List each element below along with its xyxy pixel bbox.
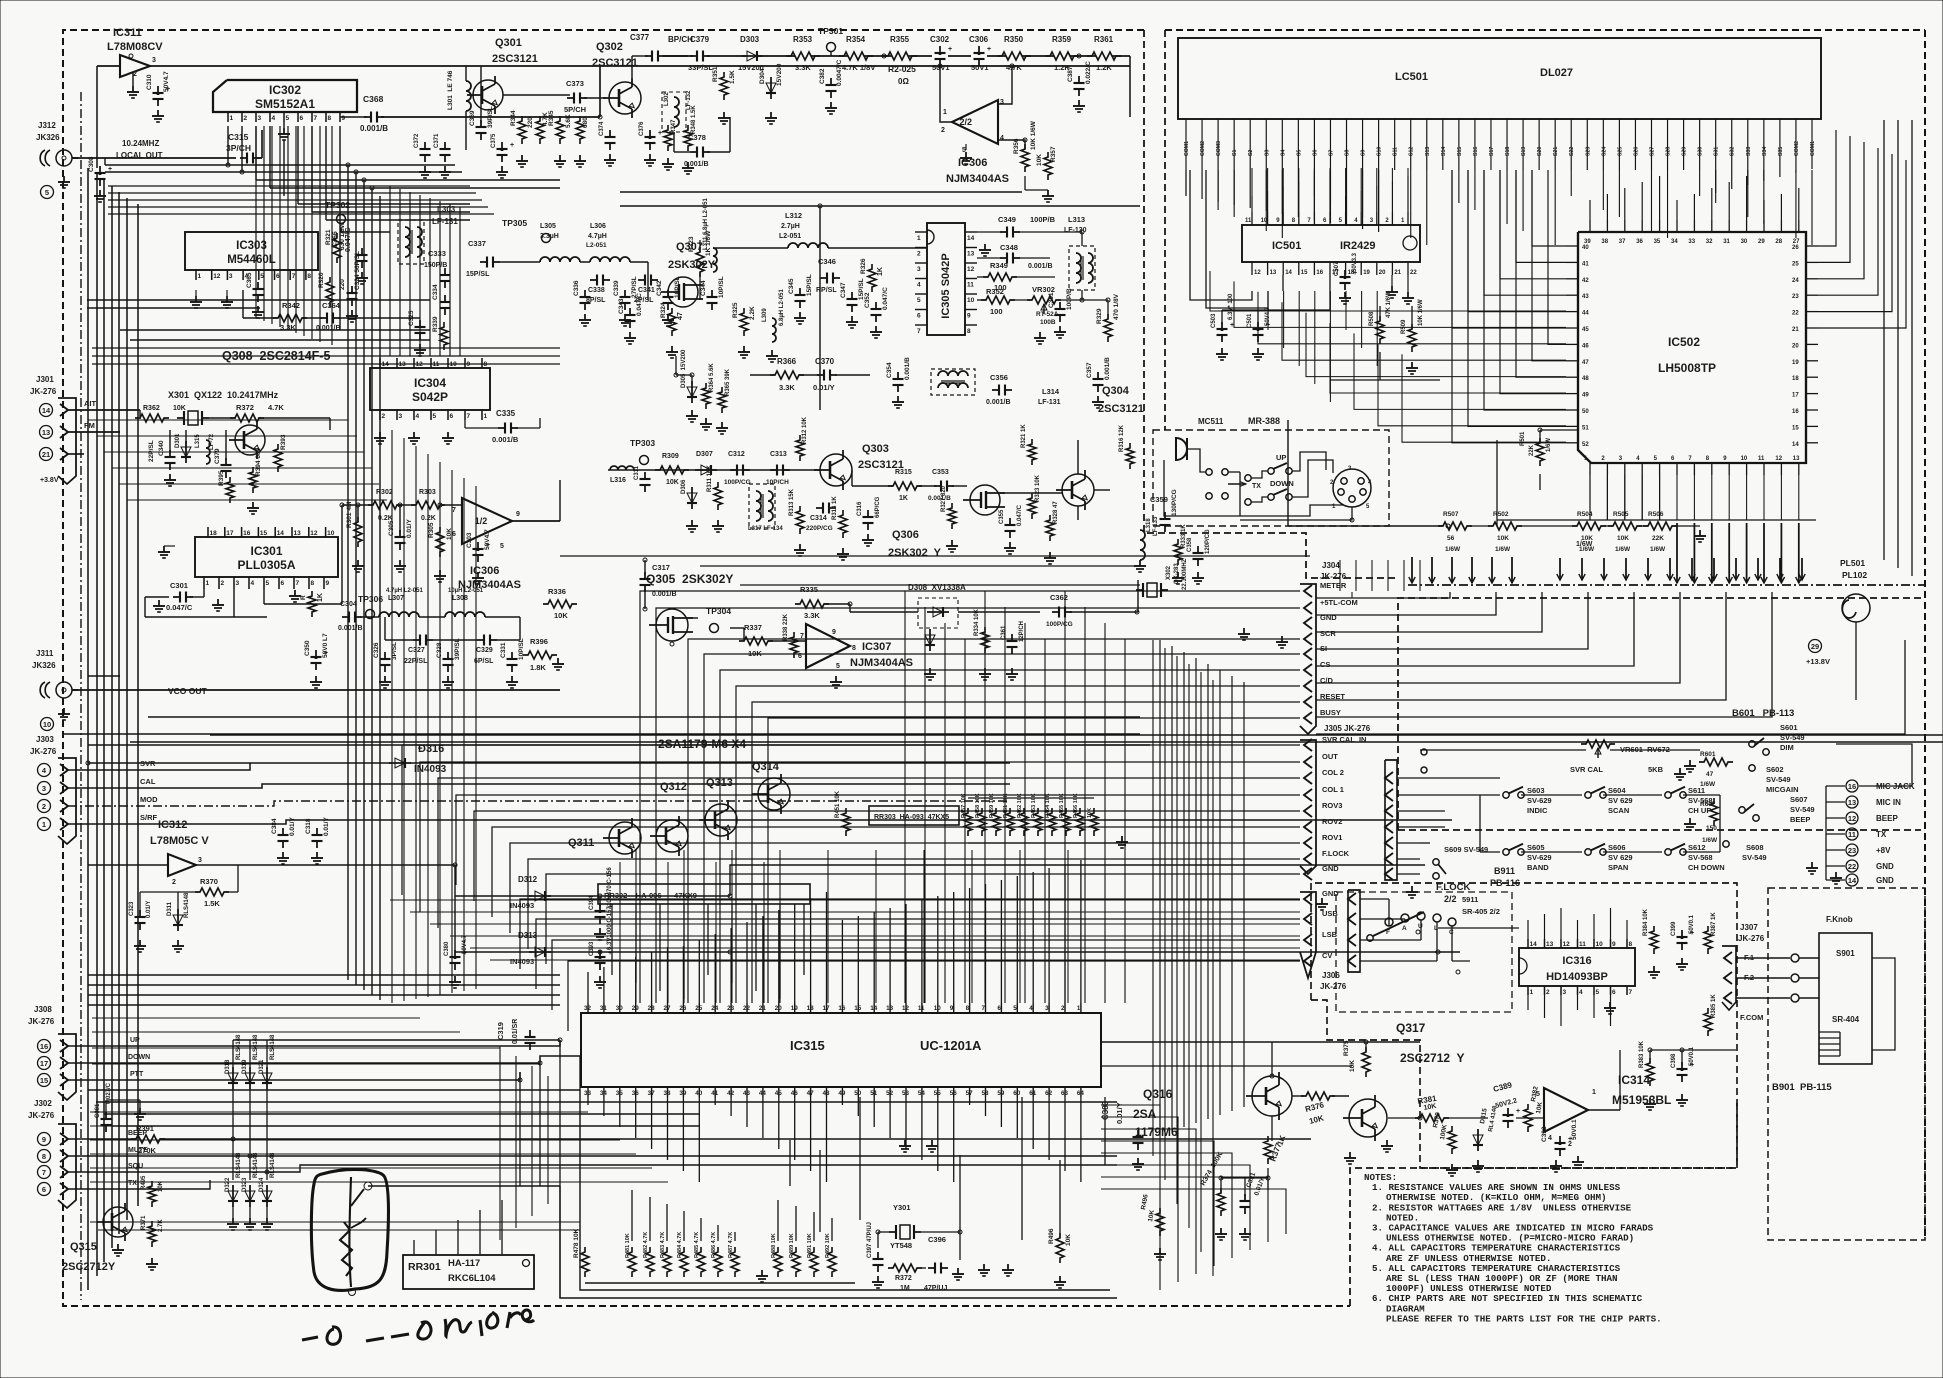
wire: [599, 66, 601, 117]
resistor R305 10K: [436, 527, 444, 557]
svg-text:8: 8: [1706, 456, 1710, 462]
svg-text:29: 29: [1811, 642, 1819, 651]
svg-text:22: 22: [1848, 862, 1856, 871]
svg-text:RLS4148: RLS4148: [236, 1034, 242, 1060]
svg-text:22K: 22K: [1529, 444, 1535, 456]
svg-text:3P/CH: 3P/CH: [226, 143, 251, 153]
svg-text:15: 15: [854, 1005, 862, 1012]
svg-text:RLS4148: RLS4148: [270, 1034, 276, 1060]
capacitor C362 100P/CG: [1052, 611, 1059, 613]
resistor R391 270K: [131, 1135, 165, 1143]
wire: [454, 865, 456, 952]
resistor R364 5.6K: [702, 383, 710, 409]
inductor L316 6.8uH: [610, 466, 634, 470]
svg-text:8: 8: [328, 115, 332, 122]
svg-text:51: 51: [870, 1090, 878, 1097]
svg-text:+: +: [658, 130, 662, 137]
wire: [704, 654, 1300, 1003]
svg-text:NJM3404AS: NJM3404AS: [946, 173, 1009, 185]
svg-text:3: 3: [1370, 218, 1374, 224]
svg-text:R305: R305: [428, 522, 435, 538]
ground: [139, 1108, 141, 1114]
svg-text:48: 48: [823, 1090, 831, 1097]
ground: [158, 600, 160, 606]
wire: [977, 231, 1002, 233]
wire MUTE: [68, 1155, 1117, 1157]
svg-text:41: 41: [1582, 261, 1589, 267]
svg-text:5P/CH: 5P/CH: [564, 105, 586, 114]
resistor R315 1K: [888, 482, 922, 490]
svg-text:10K: 10K: [1617, 535, 1629, 542]
svg-text:10K: 10K: [1535, 1101, 1544, 1114]
svg-text:12: 12: [1254, 270, 1261, 276]
svg-text:10P/SL: 10P/SL: [518, 638, 525, 660]
svg-text:C336: C336: [573, 280, 580, 296]
wire: [568, 961, 1300, 1031]
resistor R323b 10K: [1028, 493, 1036, 519]
svg-text:37: 37: [1619, 239, 1626, 245]
svg-text:50V2.2: 50V2.2: [1495, 1097, 1518, 1110]
svg-text:25: 25: [1792, 261, 1799, 267]
resistor R501 22K 1/6W: [1536, 438, 1544, 466]
svg-text:7: 7: [467, 413, 471, 420]
diode D304 15V200: [770, 77, 772, 99]
svg-text:1: 1: [1530, 989, 1534, 996]
svg-text:1: 1: [1592, 1089, 1596, 1096]
svg-text:R357: R357: [1050, 146, 1057, 162]
svg-text:S604: S604: [1608, 786, 1626, 795]
svg-text:1/6W: 1/6W: [1495, 546, 1511, 553]
wire: [90, 1139, 620, 1141]
svg-text:9: 9: [326, 580, 330, 587]
wire: [647, 262, 649, 300]
svg-text:10: 10: [327, 530, 335, 537]
svg-text:100B: 100B: [1040, 319, 1056, 326]
wire: [90, 1167, 652, 1169]
svg-text:SV-549: SV-549: [1742, 853, 1767, 862]
svg-text:14: 14: [870, 1005, 878, 1012]
switch S605 SV-629 BAND: [1503, 849, 1509, 855]
ground: [132, 72, 134, 86]
wire RR302 pins down: [611, 904, 613, 975]
svg-text:C354: C354: [886, 362, 893, 378]
capacitor C316 66P/CG: [867, 510, 869, 517]
resistor R-1K: [308, 591, 316, 617]
wire: [474, 811, 1300, 901]
wire: [968, 842, 1122, 844]
svg-text:3: 3: [1619, 456, 1623, 462]
wire: [68, 409, 140, 411]
wire mid-right verticals: [904, 591, 906, 1003]
wire: [341, 505, 343, 604]
svg-text:S26: S26: [1633, 147, 1639, 156]
svg-text:13: 13: [42, 428, 50, 437]
capacitor C338 8P/SL: [590, 279, 597, 281]
svg-text:34: 34: [1671, 239, 1678, 245]
ground: [1411, 362, 1413, 368]
wire: [340, 228, 342, 232]
wire SVR: [68, 763, 250, 770]
ground: [965, 144, 967, 150]
svg-text:C351: C351: [1048, 292, 1055, 308]
wire: [88, 864, 168, 866]
svg-text:R509: R509: [1401, 319, 1407, 334]
node 9: [38, 1133, 51, 1146]
wire IC502 bottom drops: [1589, 475, 1591, 520]
svg-text:DIM: DIM: [1780, 743, 1794, 752]
svg-text:0.001/B: 0.001/B: [986, 399, 1011, 406]
svg-text:7: 7: [982, 1005, 986, 1012]
svg-text:5: 5: [1366, 504, 1370, 510]
svg-text:25: 25: [695, 1005, 703, 1012]
svg-text:31: 31: [600, 1005, 608, 1012]
node TX: [1846, 828, 1858, 840]
svg-text:2SC2712Y: 2SC2712Y: [62, 1261, 116, 1273]
svg-text:C370: C370: [815, 357, 835, 366]
resistor R313 15K: [796, 506, 804, 534]
svg-text:IN4093: IN4093: [414, 764, 447, 775]
svg-text:C347: C347: [840, 282, 847, 298]
capacitor C311 0.033/SPP: [644, 472, 646, 479]
svg-text:5: 5: [1536, 1091, 1540, 1098]
resistor R508 47K 1/6W: [1376, 316, 1384, 344]
svg-text:9: 9: [950, 1005, 954, 1012]
resistor R342 3.3K: [273, 314, 307, 322]
resistor R495 10K: [148, 1181, 156, 1207]
wire: [63, 733, 1140, 735]
capacitor C378 0.001/B: [690, 151, 697, 153]
wire: [140, 891, 200, 893]
svg-text:SVR: SVR: [140, 759, 156, 768]
svg-text:10K: 10K: [1036, 154, 1043, 166]
resistor R381 10K: [1415, 1114, 1449, 1122]
resistor R384 10K: [1650, 926, 1658, 954]
wire: [1378, 344, 1566, 426]
svg-text:10: 10: [1261, 218, 1268, 224]
resistor R356 10K: [1021, 144, 1029, 172]
svg-text:7: 7: [292, 273, 296, 280]
svg-text:C365: C365: [246, 272, 253, 288]
svg-text:JK-276: JK-276: [1738, 934, 1765, 943]
svg-text:SM5152A1: SM5152A1: [255, 97, 315, 111]
svg-text:F.COM: F.COM: [1740, 1013, 1763, 1022]
svg-text:J307: J307: [1740, 923, 1758, 932]
IC316 HD14093BP: [1519, 948, 1635, 986]
svg-text:12: 12: [1775, 456, 1782, 462]
resistor R324 47: [668, 308, 676, 336]
svg-text:C358: C358: [1187, 537, 1193, 552]
svg-text:3: 3: [152, 57, 156, 64]
LCD LC501 DL027: [1178, 38, 1821, 119]
svg-text:2: 2: [382, 413, 386, 420]
svg-text:JK326: JK326: [32, 661, 56, 670]
svg-text:R370: R370: [200, 877, 218, 886]
svg-text:C345: C345: [788, 278, 795, 294]
svg-text:54: 54: [918, 1090, 926, 1097]
resistor R357 10K: [1044, 152, 1052, 180]
svg-text:SV 629: SV 629: [1608, 853, 1633, 862]
resistor R372b 1M: [888, 1264, 922, 1272]
svg-text:+13.8V: +13.8V: [1806, 657, 1830, 666]
svg-text:Q302: Q302: [596, 41, 623, 53]
svg-text:S20: S20: [1537, 147, 1543, 156]
svg-text:C387: C387: [1067, 66, 1074, 82]
svg-text:S27: S27: [1649, 147, 1655, 156]
svg-text:2SK302Y: 2SK302Y: [668, 259, 716, 271]
svg-text:Q314: Q314: [752, 761, 780, 773]
MC511 dashed box: [1153, 430, 1389, 526]
svg-text:TP305: TP305: [502, 218, 527, 228]
transistor Q308: [235, 425, 265, 455]
potentiometer VR302 RT-52A 100B: [1027, 296, 1061, 304]
capacitor C370 0.01/Y: [817, 374, 824, 376]
svg-text:23: 23: [1848, 846, 1856, 855]
pin GND: [1304, 617, 1312, 629]
svg-text:TX: TX: [1876, 830, 1887, 839]
wire: [438, 778, 1300, 928]
wire: [1240, 507, 1352, 520]
svg-text:11: 11: [1848, 830, 1856, 839]
svg-text:D322: D322: [225, 1177, 231, 1192]
node 14: [40, 404, 53, 417]
svg-text:100P/CG: 100P/CG: [1046, 621, 1073, 628]
svg-text:26: 26: [679, 1005, 687, 1012]
node 5: [41, 186, 54, 199]
ground: [283, 122, 285, 128]
svg-text:130P/CG: 130P/CG: [1171, 489, 1178, 516]
svg-text:USB: USB: [1322, 909, 1338, 918]
wire: [730, 865, 1425, 896]
wire: [150, 65, 1130, 67]
wire: [1183, 652, 1185, 1127]
wire: [1282, 302, 1566, 360]
svg-text:RLS4148: RLS4148: [236, 1152, 242, 1178]
svg-text:ROV1: ROV1: [1322, 833, 1342, 842]
capacitor C359 130P/CG: [1164, 512, 1166, 519]
svg-text:C369: C369: [469, 110, 476, 126]
wire CAL: [68, 784, 1010, 788]
svg-text:D324: D324: [259, 1177, 265, 1192]
node 16: [38, 1040, 51, 1053]
wire IC315 tall risers: [635, 850, 637, 1003]
svg-text:D306: D306: [681, 479, 687, 494]
svg-text:47: 47: [1582, 360, 1589, 366]
svg-text:GND: GND: [1876, 862, 1894, 871]
svg-text:LH5008TP: LH5008TP: [1658, 361, 1716, 375]
wire RR301 pins: [413, 1240, 415, 1255]
capacitor C364 0.001/B: [320, 317, 327, 319]
svg-text:10K 1/6W: 10K 1/6W: [1030, 120, 1037, 150]
ground: [1059, 1276, 1061, 1282]
ground: [1811, 862, 1813, 868]
svg-text:BAND: BAND: [1527, 863, 1549, 872]
S911 dashed box: [1336, 892, 1512, 1012]
svg-text:L314: L314: [1042, 387, 1060, 396]
svg-text:100K: 100K: [1439, 1124, 1449, 1141]
wire main IF line: [608, 469, 820, 471]
svg-text:R372: R372: [236, 403, 254, 412]
svg-text:11: 11: [967, 282, 974, 289]
svg-text:IC314: IC314: [1618, 1073, 1650, 1087]
IC304 S042P: [370, 368, 490, 410]
resistor R602 150 1/6W: [1710, 798, 1718, 826]
resistor R337 10K: [739, 637, 773, 645]
svg-text:S21: S21: [1553, 147, 1559, 156]
svg-text:8: 8: [311, 580, 315, 587]
diode D306 15V200: [691, 487, 693, 509]
svg-text:S22: S22: [1569, 147, 1575, 156]
svg-text:2.7µH: 2.7µH: [781, 223, 800, 230]
svg-text:S28: S28: [1666, 147, 1672, 156]
svg-text:R483 4.7K: R483 4.7K: [660, 1232, 666, 1258]
svg-text:S1: S1: [1232, 150, 1238, 156]
svg-text:0.001/B: 0.001/B: [338, 625, 363, 632]
svg-text:+8V: +8V: [1876, 846, 1891, 855]
svg-text:32: 32: [1706, 239, 1713, 245]
ground: [1349, 1152, 1351, 1158]
svg-text:C344: C344: [700, 280, 707, 296]
svg-text:22: 22: [1410, 270, 1417, 276]
svg-text:6.3V* 100: 6.3V* 100: [1228, 293, 1234, 320]
svg-text:S10: S10: [1377, 147, 1383, 156]
svg-text:D323: D323: [242, 1177, 248, 1192]
capacitor C503 6.3V100: [1221, 322, 1223, 329]
wire: [503, 94, 570, 96]
svg-text:J301: J301: [36, 375, 54, 384]
wire: [1101, 1117, 1178, 1282]
svg-text:J305 JK-276: J305 JK-276: [1324, 724, 1371, 733]
svg-text:50V1: 50V1: [971, 63, 989, 72]
svg-text:PB-116: PB-116: [1490, 878, 1520, 888]
svg-text:BUSY: BUSY: [1320, 708, 1341, 717]
svg-text:9: 9: [967, 313, 971, 320]
node 2: [38, 800, 51, 813]
svg-text:33P/SL: 33P/SL: [688, 63, 713, 72]
svg-text:S18: S18: [1505, 147, 1511, 156]
svg-text:J306: J306: [1322, 971, 1340, 980]
capacitor C392 50V0.1: [1559, 1136, 1561, 1143]
wire: [1101, 1129, 1196, 1274]
ground: [599, 928, 601, 934]
svg-text:IC502: IC502: [1668, 335, 1700, 349]
capacitor C370 99.4P/B: [225, 458, 227, 465]
IC303 M54460L: [185, 232, 318, 270]
capacitor C381 0.027/C: [105, 1112, 107, 1119]
svg-text:SV 629: SV 629: [1608, 796, 1633, 805]
transistor Q317 driver: [1349, 1099, 1387, 1137]
svg-text:C318: C318: [305, 818, 312, 834]
svg-text:R496: R496: [1048, 1228, 1055, 1244]
svg-text:0.001/B: 0.001/B: [684, 161, 709, 168]
capacitor C387 0.022/C: [1078, 76, 1080, 83]
svg-text:6P/SL: 6P/SL: [474, 658, 494, 665]
wire: [1101, 1177, 1268, 1242]
svg-text:27: 27: [664, 1005, 672, 1012]
svg-text:55: 55: [934, 1090, 942, 1097]
svg-text:6.8µH L2-051: 6.8µH L2-051: [779, 289, 785, 326]
svg-text:21: 21: [42, 450, 50, 459]
svg-text:+5TL-COM: +5TL-COM: [1320, 598, 1358, 607]
capacitor C310 50V4.7: [157, 86, 159, 93]
wire: [1420, 749, 1586, 751]
resistor R326 1K: [868, 264, 876, 292]
resistor R338 22K: [790, 632, 798, 658]
svg-text:10K: 10K: [1497, 535, 1509, 542]
svg-text:13: 13: [1270, 270, 1277, 276]
svg-text:R321: R321: [325, 229, 332, 245]
svg-text:100P/B: 100P/B: [1030, 215, 1056, 224]
svg-text:1K: 1K: [1275, 1134, 1287, 1147]
resistor R377 1K: [1264, 1136, 1272, 1164]
svg-text:R2-025: R2-025: [888, 64, 916, 74]
pin ROV1: [1304, 837, 1312, 849]
capacitor C323 0.01/Y: [139, 910, 141, 917]
svg-text:0.01/Y: 0.01/Y: [146, 901, 152, 918]
capacitor C326 3P/SL: [384, 652, 386, 659]
wire: [90, 1153, 636, 1155]
svg-text:34: 34: [600, 1090, 608, 1097]
node 21: [40, 448, 53, 461]
capacitor C389 50V2.2: [1507, 1108, 1509, 1115]
svg-text:S5: S5: [1296, 150, 1302, 156]
pin BUSY: [1304, 712, 1312, 724]
wire: [1736, 957, 1790, 959]
wire op-amp feedback: [998, 66, 1012, 104]
svg-text:R396: R396: [530, 637, 548, 646]
svg-text:3: 3: [198, 857, 202, 864]
svg-text:IC304: IC304: [414, 376, 446, 390]
svg-text:8: 8: [852, 645, 856, 652]
svg-text:1K: 1K: [317, 593, 324, 602]
crystal X302 QX-283 22.300MHz: [1147, 583, 1157, 597]
svg-text:20: 20: [1379, 270, 1386, 276]
svg-text:22: 22: [1792, 311, 1799, 317]
diode D315 RL4 4148: [1477, 1129, 1479, 1151]
svg-text:LC501: LC501: [1395, 71, 1428, 83]
svg-text:1: 1: [206, 580, 210, 587]
ground: [357, 560, 359, 566]
ground: [1221, 348, 1223, 354]
svg-text:4: 4: [42, 766, 47, 775]
IC315 bottom pins: [587, 1087, 589, 1097]
svg-text:43: 43: [1582, 294, 1589, 300]
wire: [1101, 1165, 1250, 1250]
svg-text:0.001/B: 0.001/B: [928, 495, 951, 502]
svg-text:13: 13: [1793, 456, 1800, 462]
inner dash-dot shield line left: [80, 92, 82, 1300]
IC502 left pins: [1566, 245, 1578, 247]
capacitor C317 0.001/B: [644, 572, 646, 579]
pin CS: [1304, 664, 1312, 676]
resistor R352 100: [981, 296, 1015, 304]
svg-text:LF-131: LF-131: [432, 217, 458, 226]
svg-text:1K: 1K: [899, 495, 908, 502]
svg-text:R329: R329: [1096, 308, 1103, 324]
capacitor C369 39P/SL: [480, 120, 482, 127]
svg-text:20: 20: [775, 1005, 783, 1012]
svg-text:9: 9: [1612, 941, 1616, 948]
resistor R362 10K: [135, 414, 169, 422]
svg-text:2SC3121: 2SC3121: [1098, 403, 1144, 415]
svg-text:56: 56: [1447, 535, 1455, 542]
wire: [1210, 271, 1566, 311]
svg-text:C507: C507: [1334, 261, 1340, 276]
wire: [768, 640, 806, 642]
resistor R303 0.2K: [411, 501, 445, 509]
svg-text:M54460L: M54460L: [227, 254, 276, 266]
svg-text:C319: C319: [496, 1022, 505, 1040]
capacitor C312 100P/CG: [730, 469, 737, 471]
